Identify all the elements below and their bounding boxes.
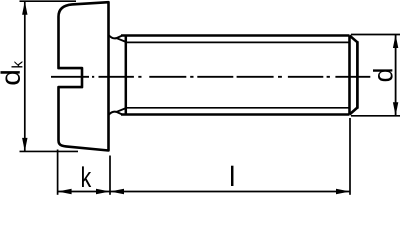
end face line	[356, 41, 359, 108]
l dimension line	[110, 191, 350, 193]
screw head outline	[59, 2, 109, 150]
k dimension line	[58, 191, 110, 193]
l extension line right	[349, 118, 351, 195]
k arrow right	[96, 189, 110, 195]
fillet under head bottom	[109, 112, 117, 115]
dk arrow down	[22, 138, 27, 152]
label dk: subscript k	[12, 61, 23, 68]
label d	[373, 69, 393, 81]
chamfer top	[350, 36, 358, 43]
dk extension line top	[20, 0, 77, 2]
thread runout bottom	[117, 108, 126, 114]
dk dimension line	[24, 1, 26, 151]
d extension line bottom	[351, 115, 400, 117]
k/l shared extension line	[109, 156, 111, 195]
label l	[231, 166, 233, 186]
d arrow up	[393, 35, 398, 49]
label k	[82, 166, 91, 187]
dk arrow up	[22, 1, 27, 15]
thread root line bottom	[126, 107, 350, 109]
d arrow down	[393, 102, 398, 116]
l arrow left	[110, 189, 124, 195]
k extension line left	[57, 150, 59, 195]
centerline	[51, 76, 370, 78]
k arrow left	[58, 189, 72, 195]
thread runout top	[117, 36, 126, 42]
label dk: letter d	[0, 71, 19, 85]
thread root line top	[126, 41, 350, 43]
dk extension line bottom	[20, 150, 79, 152]
l arrow right	[336, 189, 350, 195]
d extension line top	[351, 34, 400, 36]
fillet under head top	[109, 35, 117, 38]
shank bottom outer line	[121, 113, 350, 116]
shank top outer line	[121, 34, 350, 37]
chamfer bottom	[350, 108, 358, 115]
thread end line	[125, 36, 128, 115]
d dimension line	[395, 35, 397, 116]
chamfer start line	[348, 36, 351, 115]
